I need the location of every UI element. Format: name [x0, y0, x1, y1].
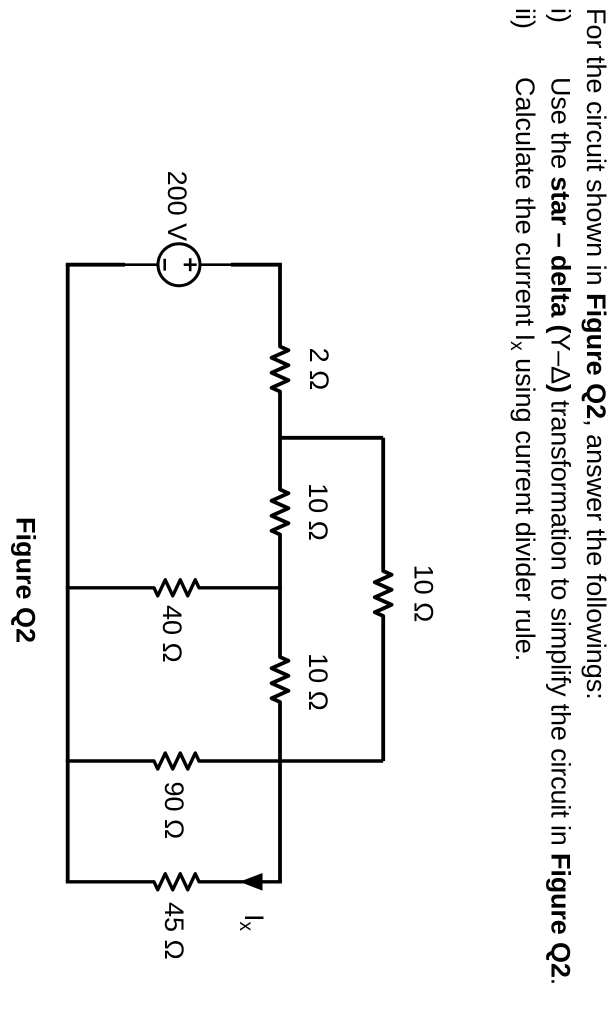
- wire: inner loop left vertical: [280, 436, 383, 440]
- wire: left source branch lower segment: [66, 263, 125, 267]
- svg-text:40 Ω: 40 Ω: [157, 605, 187, 663]
- resistor 40ohm branch with zigzag: [66, 580, 282, 596]
- svg-text:Ix: Ix: [235, 914, 269, 932]
- svg-text:10 Ω: 10 Ω: [303, 653, 333, 711]
- svg-text:Figure Q2: Figure Q2: [10, 517, 40, 643]
- svg-text:10 Ω: 10 Ω: [303, 483, 333, 541]
- svg-text:45 Ω: 45 Ω: [159, 902, 189, 960]
- svg-text:ii): ii): [510, 8, 540, 29]
- svg-text:90 Ω: 90 Ω: [159, 782, 189, 840]
- svg-text:2 Ω: 2 Ω: [304, 348, 334, 391]
- wire: left source branch upper segment: [231, 263, 282, 267]
- wire: inner rail with resistor 10ohm (top) zigzag: [375, 438, 392, 761]
- svg-text:Calculate the current Ix using: Calculate the current Ix using current d…: [506, 77, 540, 661]
- resistor R 2ohm zigzag / resistor 10ohm #1 zigzag / resistor 10ohm #2 zigzag inline: [272, 265, 289, 882]
- current Ix arrowhead on 45ohm branch: [240, 873, 263, 891]
- resistor 45ohm branch with zigzag: [66, 874, 282, 890]
- voltage source V1 circle: [158, 244, 200, 286]
- voltage source V1 lead top (thin): [199, 263, 231, 266]
- resistor 90ohm branch with zigzag (runs from inner rail to bottom rail): [66, 753, 383, 769]
- wire: bottom rail: [66, 265, 70, 882]
- voltage source V1 lead bottom (thin): [125, 263, 158, 266]
- svg-text:200 V: 200 V: [162, 171, 192, 242]
- svg-text:For the circuit shown in Figur: For the circuit shown in Figure Q2, answ…: [581, 8, 611, 700]
- voltage source V1 plus sign: [189, 258, 192, 271]
- svg-text:i): i): [546, 8, 576, 23]
- voltage source V1 minus sign: [163, 259, 166, 271]
- svg-text:Use the star – delta (Y–Δ) tra: Use the star – delta (Y–Δ) transformatio…: [546, 77, 576, 985]
- svg-text:10 Ω: 10 Ω: [408, 565, 438, 623]
